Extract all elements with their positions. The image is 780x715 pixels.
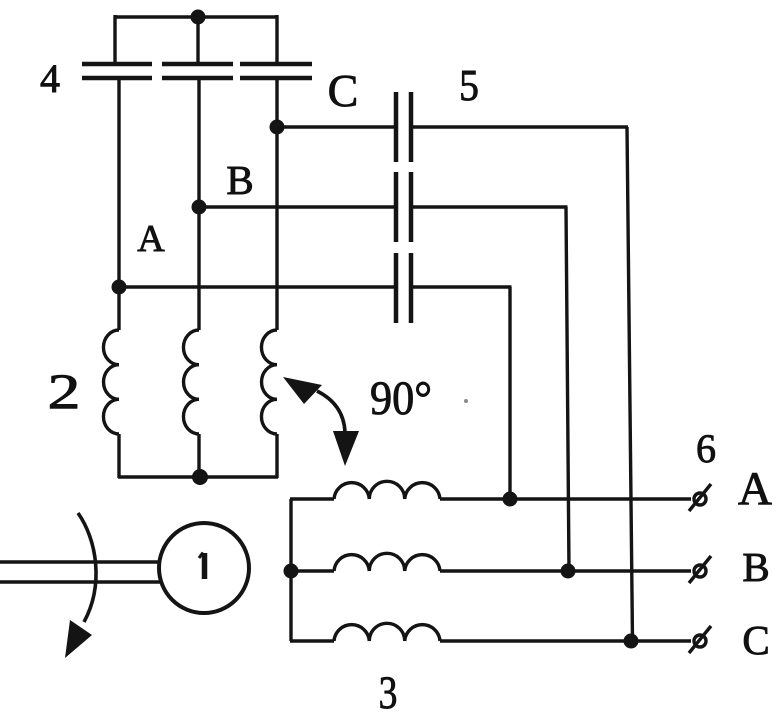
wire winding 3 top stub xyxy=(290,497,334,500)
capacitor 5 on line A xyxy=(396,253,411,323)
90 degree arrow arc xyxy=(317,391,345,432)
capacitor 4 phase C xyxy=(240,64,312,78)
svg-text:C: C xyxy=(328,65,359,116)
wire bus center drop xyxy=(196,15,199,63)
svg-text:4: 4 xyxy=(40,56,60,101)
node B tap xyxy=(192,200,207,215)
wire bus left drop xyxy=(113,15,116,63)
wire coil B bottom xyxy=(197,434,200,478)
winding 3 coil A xyxy=(334,481,440,499)
svg-text:C: C xyxy=(742,617,769,663)
rotation arrow xyxy=(78,513,96,622)
wire branch A left segment xyxy=(119,285,396,288)
wire winding 3 bottom stub xyxy=(290,639,334,642)
capacitor 5 on line C xyxy=(396,92,411,162)
wire coil A bottom xyxy=(117,434,120,478)
node star point xyxy=(192,469,208,485)
node A row junction xyxy=(503,492,518,507)
label 1 xyxy=(202,553,208,579)
wire branch B left segment xyxy=(199,205,396,208)
wire coil C to terminal C xyxy=(440,639,691,642)
svg-text:B: B xyxy=(742,544,769,590)
terminal C xyxy=(689,626,711,653)
svg-text:6: 6 xyxy=(696,426,716,471)
speck xyxy=(464,399,468,403)
wire branch C right segment xyxy=(411,125,628,128)
winding 2 coil phase B xyxy=(183,330,199,434)
wire branch C left segment xyxy=(277,125,396,128)
svg-text:3: 3 xyxy=(379,667,398,715)
wire phase A vertical xyxy=(117,79,120,330)
node C row junction xyxy=(624,634,639,649)
wire branch C drop xyxy=(627,127,633,641)
svg-text:A: A xyxy=(137,218,165,260)
node A tap xyxy=(112,280,127,295)
winding 3 coil B xyxy=(334,553,440,571)
wire phase C vertical xyxy=(275,79,278,330)
svg-text:90°: 90° xyxy=(370,372,432,425)
svg-text:B: B xyxy=(226,157,253,203)
90 degree arrow lower head xyxy=(333,431,359,466)
wire bus right drop xyxy=(275,15,278,63)
wire branch B right segment xyxy=(411,205,568,208)
wire star bus winding 2 xyxy=(118,475,278,478)
machine 1 rotor xyxy=(159,523,249,613)
wire coil A to terminal A xyxy=(440,497,691,500)
capacitor 4 phase B xyxy=(162,64,233,78)
wire phase B vertical xyxy=(197,79,200,330)
node B row junction xyxy=(561,564,576,579)
capacitor 5 on line B xyxy=(396,172,411,242)
winding 3 coil C xyxy=(334,623,440,641)
capacitor 4 phase A xyxy=(82,64,152,78)
terminal A xyxy=(689,484,711,511)
node C tap xyxy=(270,120,285,135)
wire branch B drop xyxy=(566,207,569,571)
svg-text:A: A xyxy=(738,463,772,515)
wire coil C bottom xyxy=(275,434,278,478)
wire branch A drop xyxy=(508,287,511,499)
svg-text:5: 5 xyxy=(459,62,479,110)
shaft xyxy=(0,560,164,563)
wire branch A right segment xyxy=(411,285,512,288)
90 degree arrow upper head xyxy=(283,377,322,404)
wire winding 3 mid stub xyxy=(291,569,334,572)
winding 2 coil phase C xyxy=(261,330,277,434)
wire coil B to terminal B xyxy=(440,569,691,572)
node top bus junction xyxy=(191,10,206,25)
terminal B xyxy=(689,556,711,583)
wire top bus xyxy=(115,15,277,18)
wire winding 3 left vertical xyxy=(289,499,292,641)
winding 2 coil phase A xyxy=(103,330,119,434)
svg-text:2: 2 xyxy=(48,364,81,420)
node winding 3 mid tap xyxy=(284,564,299,579)
